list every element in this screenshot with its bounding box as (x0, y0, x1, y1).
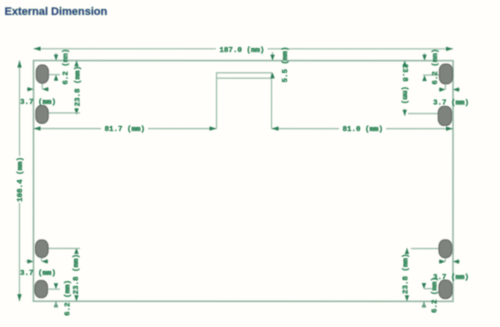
svg-text:23.8 (mm): 23.8 (mm) (75, 66, 83, 107)
hole BR1 (439, 240, 452, 258)
svg-text:6.2 (mm): 6.2 (mm) (63, 49, 71, 85)
svg-text:6.2 (mm): 6.2 (mm) (64, 280, 72, 316)
leader TL hole1 (49, 74, 60, 76)
leader TR hole1 (423, 74, 440, 76)
dim 108.4 line (18, 61, 20, 302)
connector bar (217, 73, 272, 78)
svg-text:187.0 (mm): 187.0 (mm) (219, 47, 264, 55)
dim 81.7 line (34, 128, 217, 130)
dim 3.7 BR (438, 258, 460, 262)
svg-text:108.4 (mm): 108.4 (mm) (17, 157, 25, 202)
dim 6.2 BR (422, 283, 426, 289)
hole TR2 (438, 106, 451, 125)
hole TL1 (36, 65, 48, 83)
board outline (33, 61, 453, 302)
dim 23.8 BL (75, 248, 77, 301)
dim 6.2 TR (424, 53, 426, 59)
dim 5.5 (272, 52, 274, 59)
hole BL2 (35, 280, 48, 297)
leader BL hole1 (48, 247, 79, 249)
svg-text:23.8 (mm): 23.8 (mm) (402, 254, 410, 295)
svg-text:81.0 (mm): 81.0 (mm) (343, 126, 384, 134)
hole BL1 (35, 240, 48, 258)
hole TR1 (439, 64, 452, 84)
svg-text:External Dimension: External Dimension (5, 6, 108, 18)
dim 23.8 TL (76, 61, 78, 115)
svg-text:5.5 (mm): 5.5 (mm) (282, 46, 290, 82)
leader BR hole2 (424, 288, 432, 290)
svg-text:3.7 (mm): 3.7 (mm) (20, 99, 56, 107)
svg-text:3.7 (mm): 3.7 (mm) (20, 270, 56, 278)
hole TL2 (36, 105, 48, 123)
svg-text:3.7 (mm): 3.7 (mm) (433, 274, 469, 282)
svg-text:6.2 (mm): 6.2 (mm) (432, 49, 440, 85)
dim 3.7 TR (439, 85, 461, 90)
svg-text:3.7 (mm): 3.7 (mm) (433, 100, 469, 108)
leader BL hole2 (48, 288, 60, 290)
dim 3.7 BL (26, 258, 49, 262)
dim 6.2 BL (54, 283, 58, 289)
wire leader from bar left end (216, 78, 218, 128)
dim 3.7 TL (27, 83, 50, 89)
svg-text:23.8 (mm): 23.8 (mm) (400, 64, 408, 105)
svg-text:81.7 (mm): 81.7 (mm) (105, 126, 146, 134)
leader TL hole2 (49, 112, 81, 114)
dim 23.8 TR (404, 61, 406, 116)
svg-text:6.2 (mm): 6.2 (mm) (431, 277, 439, 313)
svg-text:23.8 (mm): 23.8 (mm) (73, 254, 81, 295)
dim 23.8 BR (406, 248, 408, 301)
dim 6.2 TL (55, 53, 57, 59)
leader BR hole1 (411, 248, 439, 250)
dim 187.0 line (34, 48, 454, 50)
dim 81.0 line (272, 128, 454, 130)
leader TR hole2 (408, 113, 438, 115)
wire leader from bar right end (271, 78, 273, 128)
hole BR2 (439, 280, 452, 299)
